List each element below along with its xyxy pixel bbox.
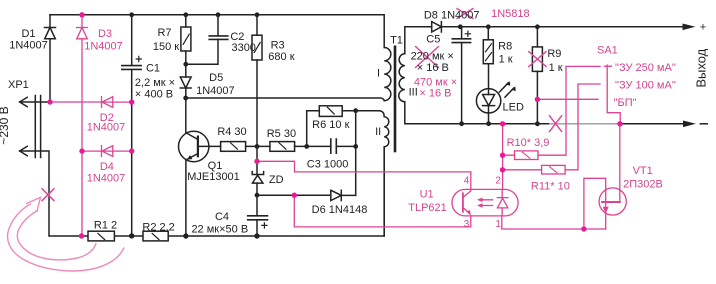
svg-text:ZD: ZD (269, 174, 284, 186)
svg-text:R11* 10: R11* 10 (531, 181, 570, 193)
svg-text:D4: D4 (100, 161, 114, 173)
svg-text:× 400 В: × 400 В (135, 89, 173, 101)
svg-text:220 мк ×: 220 мк × (411, 51, 454, 63)
svg-text:1N4007: 1N4007 (87, 122, 126, 134)
svg-text:1: 1 (495, 219, 501, 230)
svg-text:MJE13001: MJE13001 (187, 171, 240, 183)
svg-text:× 16 В: × 16 В (419, 88, 451, 100)
svg-text:1N4007: 1N4007 (196, 85, 235, 97)
svg-text:Выход: Выход (694, 48, 709, 87)
svg-text:3300: 3300 (231, 42, 255, 54)
svg-text:R7: R7 (157, 27, 171, 39)
svg-text:XP1: XP1 (8, 79, 29, 91)
svg-text:1N4007: 1N4007 (9, 39, 48, 51)
svg-text:~230 В: ~230 В (0, 106, 11, 144)
svg-text:D6 1N4148: D6 1N4148 (312, 204, 368, 216)
svg-text:1N4007: 1N4007 (87, 173, 126, 185)
svg-text:1N5818: 1N5818 (491, 8, 530, 20)
svg-text:D3: D3 (98, 28, 112, 40)
svg-text:"БП": "БП" (614, 97, 637, 109)
svg-text:2П302В: 2П302В (623, 179, 663, 191)
svg-text:C1: C1 (146, 63, 160, 75)
svg-text:"ЗУ 250 мА": "ЗУ 250 мА" (615, 62, 676, 74)
svg-text:3: 3 (464, 219, 470, 230)
svg-text:1 к: 1 к (549, 62, 563, 74)
svg-text:R10* 3,9: R10* 3,9 (507, 137, 550, 149)
svg-text:4: 4 (464, 176, 470, 187)
svg-text:TLP621: TLP621 (408, 202, 447, 214)
svg-text:22 мк×50 В: 22 мк×50 В (191, 223, 248, 235)
svg-text:R5 30: R5 30 (267, 128, 296, 140)
svg-text:2: 2 (495, 176, 501, 187)
svg-text:R3: R3 (271, 40, 285, 52)
svg-text:R9: R9 (547, 48, 561, 60)
svg-text:D8 1N4007: D8 1N4007 (424, 9, 480, 21)
svg-text:R6 10 к: R6 10 к (312, 119, 349, 131)
svg-text:VT1: VT1 (633, 165, 653, 177)
svg-text:D1: D1 (21, 28, 35, 40)
svg-text:C3 1000: C3 1000 (307, 159, 349, 171)
svg-text:1 к: 1 к (499, 54, 513, 66)
svg-text:SA1: SA1 (597, 45, 618, 57)
svg-text:150 к: 150 к (153, 41, 179, 53)
svg-text:× 16 В: × 16 В (417, 62, 449, 74)
svg-text:C4: C4 (215, 211, 229, 223)
svg-text:U1: U1 (420, 189, 434, 201)
svg-text:I: I (377, 68, 380, 80)
svg-text:C5: C5 (426, 33, 440, 45)
svg-text:"ЗУ 100 мА": "ЗУ 100 мА" (615, 79, 676, 91)
svg-text:C2: C2 (230, 31, 244, 43)
svg-text:2,2 мк ×: 2,2 мк × (135, 77, 175, 89)
svg-text:+: + (700, 22, 706, 34)
svg-text:II: II (375, 126, 381, 138)
svg-text:1N4007: 1N4007 (84, 41, 123, 53)
svg-text:R1 2: R1 2 (94, 220, 117, 232)
svg-text:R4 30: R4 30 (217, 126, 246, 138)
svg-text:680 к: 680 к (268, 51, 294, 63)
svg-text:T1: T1 (390, 35, 403, 47)
svg-text:R8: R8 (498, 40, 512, 52)
svg-text:LED: LED (503, 102, 524, 114)
svg-text:D5: D5 (209, 72, 223, 84)
svg-text:Q1: Q1 (208, 160, 223, 172)
svg-text:R2 2,2: R2 2,2 (142, 221, 174, 233)
